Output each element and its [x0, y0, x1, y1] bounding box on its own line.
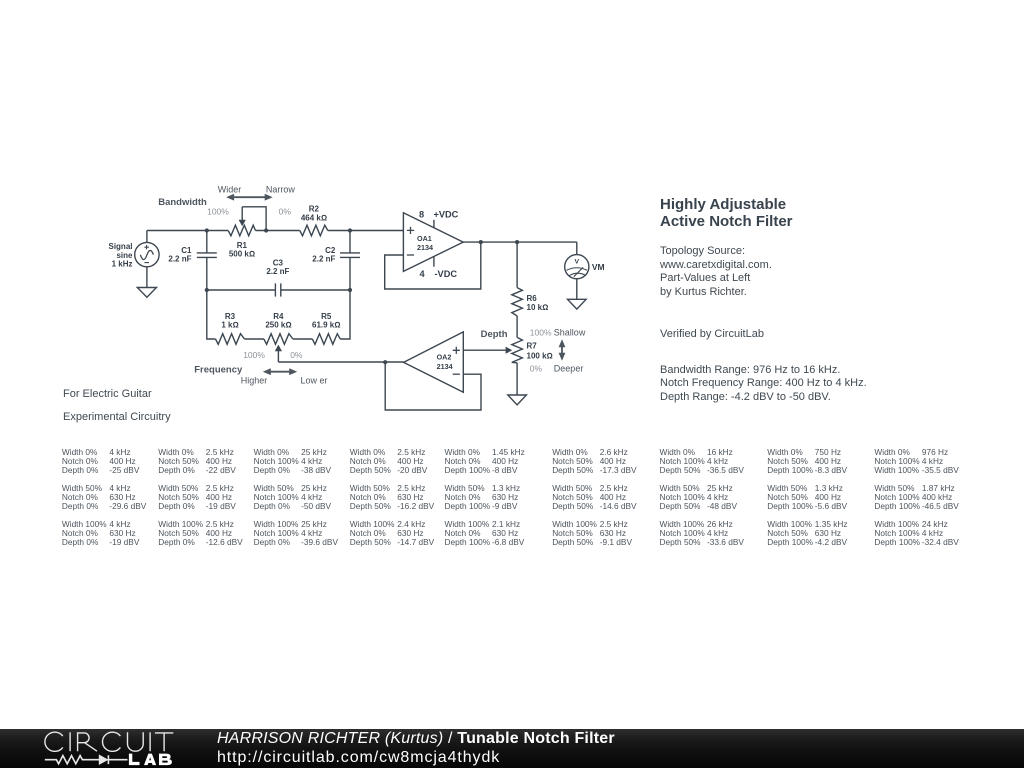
- OA1 - input mark: [407, 254, 414, 256]
- ground below VM: [568, 299, 587, 309]
- ground below source: [137, 288, 156, 298]
- R1 wiper arrow and link: [242, 207, 266, 231]
- op-amp OA1 2134: [403, 213, 463, 272]
- OA1 pin 8 +VDC stub: [433, 220, 435, 228]
- voltmeter VM: [565, 242, 589, 279]
- svg-text:R6: R6: [527, 294, 538, 303]
- node: output / R6 junction: [515, 240, 519, 244]
- OA1 pin 4 -VDC stub: [433, 256, 435, 266]
- svg-text:2134: 2134: [417, 243, 433, 252]
- svg-text:500 kΩ: 500 kΩ: [229, 249, 255, 258]
- svg-text:Signal: Signal: [108, 242, 132, 251]
- R4 wiper arrow: [277, 349, 279, 362]
- node: junction top wire / C1: [205, 228, 209, 232]
- capacitor C1 2.2 nF: [197, 231, 217, 291]
- wire: source bottom lead: [146, 267, 148, 288]
- svg-text:0%: 0%: [530, 364, 543, 374]
- arrow Higher-Lower: [269, 371, 291, 373]
- wire: left vertical to R3 row: [207, 290, 216, 339]
- resistor R5 61.9 k&#8486;: [312, 334, 340, 345]
- OA1 + input mark: [407, 227, 414, 234]
- svg-text:R7: R7: [527, 342, 538, 351]
- svg-text:V: V: [575, 259, 580, 266]
- svg-text:OA1: OA1: [417, 234, 432, 243]
- node: junction bottom wire left: [205, 288, 209, 292]
- ground below R7: [508, 395, 527, 405]
- svg-text:100%: 100%: [243, 350, 265, 360]
- svg-text:100%: 100%: [530, 327, 552, 337]
- svg-text:61.9 kΩ: 61.9 kΩ: [312, 320, 340, 329]
- OA2 - input mark: [453, 373, 460, 375]
- resistor R2 464 k&#8486;: [300, 225, 328, 236]
- wire: source top lead: [146, 231, 148, 243]
- resistor R7 100 k&#8486; potentiometer body: [512, 337, 523, 362]
- label: Signal sine 1 kHz: [108, 242, 133, 268]
- wire: top net from source to R1: [147, 230, 228, 232]
- svg-text:Higher: Higher: [241, 376, 268, 386]
- svg-text:8: 8: [419, 209, 424, 219]
- op-amp OA2 2134: [404, 332, 464, 392]
- svg-text:Depth: Depth: [481, 329, 508, 340]
- node: junction bottom wire right: [348, 288, 352, 292]
- wire: R4 to R5: [293, 338, 312, 340]
- wire: R6 to R7: [516, 316, 518, 338]
- svg-text:OA2: OA2: [437, 353, 452, 362]
- svg-text:0%: 0%: [290, 350, 303, 360]
- label R6: [527, 294, 549, 312]
- R7 wiper arrow: [463, 349, 507, 351]
- node: R1 wiper junction: [264, 228, 268, 232]
- svg-text:100%: 100%: [207, 207, 229, 217]
- label R1: [229, 241, 255, 258]
- wire: R7 to ground: [516, 363, 518, 395]
- label C1: [168, 246, 192, 264]
- svg-text:2.2 nF: 2.2 nF: [312, 255, 335, 264]
- wire: bottom net right of C3: [281, 289, 350, 291]
- label R5: [312, 312, 340, 329]
- arrow Shallow-Deeper: [561, 345, 563, 355]
- svg-text:464 kΩ: 464 kΩ: [301, 214, 327, 223]
- signal source V1 (sine 1 kHz): [135, 242, 159, 266]
- svg-text:Frequency: Frequency: [194, 365, 243, 376]
- svg-text:10 kΩ: 10 kΩ: [527, 303, 549, 312]
- resistor R1 500 k&#8486; potentiometer body: [228, 225, 255, 236]
- CircuitLab logo resistor-diode glyph: [45, 755, 128, 764]
- svg-text:Narrow: Narrow: [266, 184, 296, 194]
- node: output / feedback junction: [479, 240, 483, 244]
- resistor R3 1 k&#8486;: [216, 334, 245, 345]
- label R4: [265, 312, 291, 329]
- label pin 4 -VDC: [419, 269, 457, 279]
- label pin 8 +VDC: [419, 209, 459, 219]
- wire: R4 wiper to OA2 output: [278, 361, 403, 363]
- wire: output to R6: [516, 242, 518, 288]
- CircuitLab logo LAB lettering: [129, 754, 172, 766]
- svg-text:2.2 nF: 2.2 nF: [168, 255, 191, 264]
- OA2 + input mark: [453, 347, 460, 354]
- svg-text:250 kΩ: 250 kΩ: [265, 320, 291, 329]
- CircuitLab logo lettering CIRCUIT: [45, 732, 173, 751]
- label OA1 2134: [417, 234, 433, 252]
- wire: R3 to R4: [245, 338, 264, 340]
- arrow Wider-Narrow: [232, 196, 267, 198]
- wire: R2 to op-amp: [328, 230, 404, 232]
- node: junction top wire / C2: [348, 228, 352, 232]
- svg-text:2134: 2134: [437, 362, 453, 371]
- svg-text:1 kΩ: 1 kΩ: [221, 320, 238, 329]
- svg-text:Deeper: Deeper: [554, 364, 584, 374]
- svg-text:+VDC: +VDC: [434, 209, 459, 219]
- svg-text:4: 4: [419, 269, 425, 279]
- capacitor C3 2.2 nF: [275, 283, 280, 296]
- svg-text:2.2 nF: 2.2 nF: [266, 267, 289, 276]
- label OA2 2134: [437, 353, 453, 372]
- node: OA2 output / feedback junction: [383, 360, 387, 364]
- label C2: [312, 246, 336, 264]
- label R3: [221, 312, 238, 329]
- wire: R1 to R2: [256, 230, 300, 232]
- svg-text:Shallow: Shallow: [554, 327, 586, 337]
- svg-text:R2: R2: [309, 205, 320, 214]
- label C3: [266, 258, 289, 276]
- svg-text:Wider: Wider: [218, 184, 242, 194]
- label R7: [527, 342, 553, 361]
- wire: VM to ground: [576, 279, 578, 300]
- wire: OA2 feedback loop: [385, 362, 481, 410]
- resistor R6 10 k&#8486;: [512, 288, 523, 316]
- label R2: [301, 205, 327, 223]
- resistor R4 250 k&#8486; potentiometer body: [264, 334, 293, 345]
- svg-text:100 kΩ: 100 kΩ: [527, 351, 553, 360]
- svg-text:0%: 0%: [279, 207, 292, 217]
- capacitor C2 2.2 nF: [340, 231, 360, 291]
- svg-text:1 kHz: 1 kHz: [112, 259, 133, 268]
- svg-text:Bandwidth: Bandwidth: [158, 197, 207, 208]
- wire: bottom net left of C3: [207, 289, 276, 291]
- svg-text:VM: VM: [592, 262, 605, 272]
- svg-text:-VDC: -VDC: [435, 269, 458, 279]
- wire: OA1 output net: [463, 241, 577, 243]
- svg-text:Low er: Low er: [300, 376, 327, 386]
- wire: R5 to right vertical: [340, 290, 350, 339]
- wire: OA1 feedback loop: [385, 242, 481, 289]
